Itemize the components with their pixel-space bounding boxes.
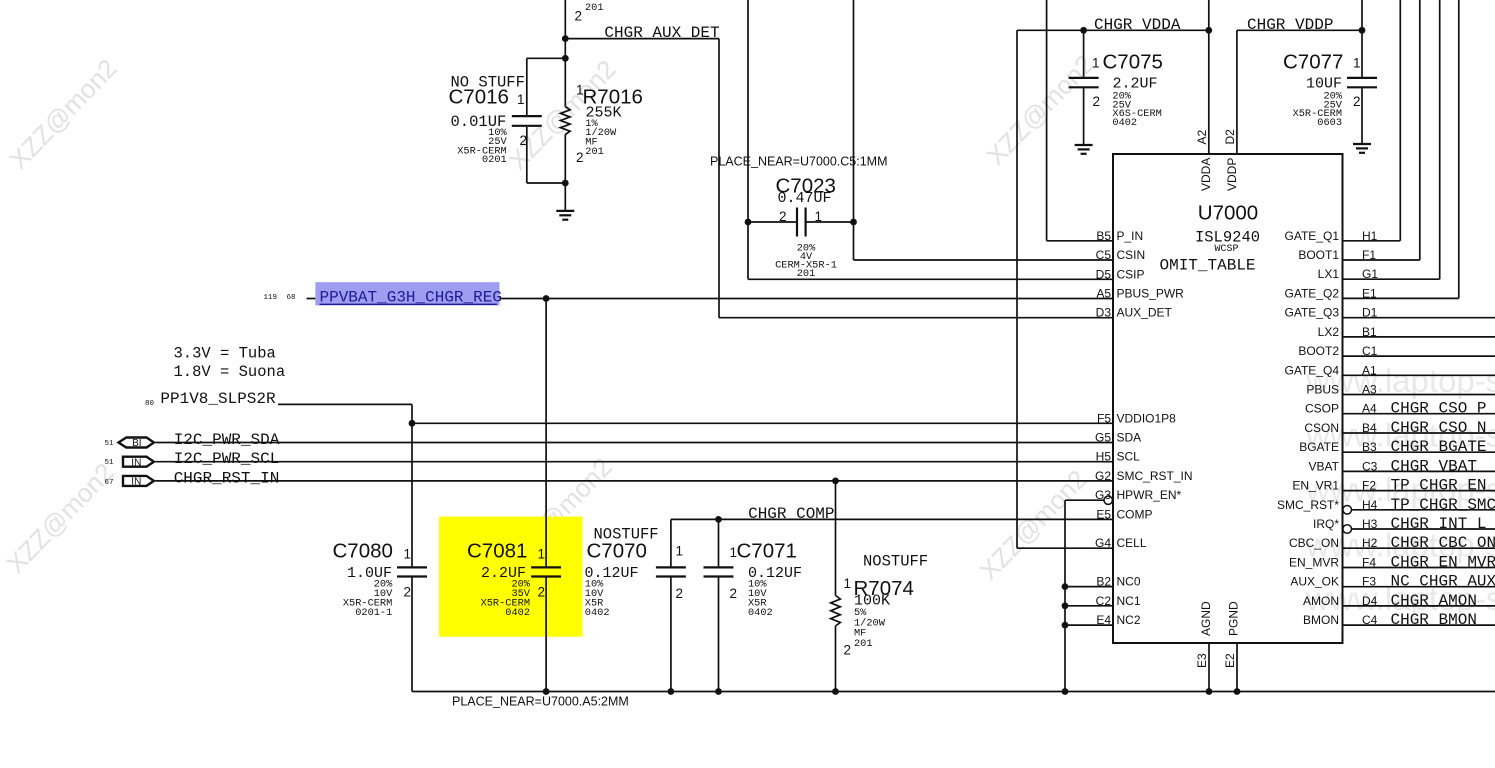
svg-text:2: 2 bbox=[676, 586, 684, 601]
watermark xzz@mon2 bbox=[973, 464, 1092, 586]
svg-text:C7070: C7070 bbox=[587, 540, 647, 563]
svg-text:VDDA: VDDA bbox=[1199, 158, 1213, 191]
svg-text:GATE_Q3: GATE_Q3 bbox=[1285, 306, 1340, 320]
pin A4 CSOP bbox=[1305, 400, 1495, 418]
wire PP1V8_SLPS2R bbox=[278, 404, 412, 566]
wire CHGR_VDDA bbox=[1017, 30, 1209, 548]
svg-text:VDDP: VDDP bbox=[1225, 158, 1239, 191]
svg-text:HPWR_EN*: HPWR_EN* bbox=[1117, 488, 1182, 502]
pin H2 CBC_ON bbox=[1289, 534, 1495, 552]
svg-text:0402: 0402 bbox=[505, 607, 530, 619]
op-amp U7000 ISL9240 body bbox=[1113, 154, 1343, 643]
svg-text:CHGR_VBAT: CHGR_VBAT bbox=[1391, 457, 1477, 475]
svg-text:2: 2 bbox=[519, 133, 527, 148]
svg-text:201: 201 bbox=[585, 2, 604, 14]
pin F2 EN_VR1 bbox=[1292, 477, 1495, 495]
svg-text:GATE_Q1: GATE_Q1 bbox=[1285, 229, 1340, 243]
pin G3 HPWR_EN* labels bbox=[1095, 488, 1182, 502]
svg-text:G5: G5 bbox=[1095, 431, 1111, 445]
svg-text:NC1: NC1 bbox=[1117, 594, 1141, 608]
capacitor C7080 bbox=[397, 567, 427, 691]
svg-text:PP1V8_SLPS2R: PP1V8_SLPS2R bbox=[160, 390, 276, 408]
pin B3 BGATE bbox=[1299, 438, 1495, 456]
pin ref number 51 (SDA) bbox=[104, 440, 114, 448]
pin G5 SDA labels bbox=[1095, 431, 1141, 445]
pin A5 PBUS_PWR labels bbox=[1096, 287, 1184, 301]
wire pin B2 NC0 bbox=[1065, 586, 1113, 588]
pin bubble G3 HPWR_EN* bbox=[1104, 496, 1112, 504]
junction node CHGR_COMP/C7071 bbox=[715, 516, 722, 523]
svg-text:C2: C2 bbox=[1096, 594, 1112, 608]
svg-text:67: 67 bbox=[104, 479, 113, 487]
note PLACE_NEAR=U7000.C5:1MM bbox=[710, 155, 888, 169]
svg-text:1: 1 bbox=[537, 547, 545, 562]
resistor R7074 (NOSTUFF) bbox=[831, 481, 841, 692]
pin ref number 67 bbox=[104, 479, 113, 487]
wire PPVBAT to pin A5 bbox=[500, 298, 1114, 300]
svg-text:D5: D5 bbox=[1096, 267, 1112, 281]
junction node rail x=718.5 bbox=[715, 688, 722, 695]
watermark xzz@mon2 bbox=[3, 53, 122, 175]
watermark www.laptop bbox=[1305, 416, 1495, 453]
pin E3 AGND bbox=[1195, 601, 1213, 692]
wire ground rail bbox=[412, 691, 1495, 693]
svg-text:2: 2 bbox=[537, 585, 545, 600]
pin D4 AMON bbox=[1303, 592, 1495, 610]
pin A2 VDDA bbox=[1195, 129, 1213, 191]
svg-text:CHGR_BMON: CHGR_BMON bbox=[1391, 611, 1477, 629]
svg-text:EN_VR1: EN_VR1 bbox=[1292, 479, 1339, 493]
C7080 labels bbox=[333, 540, 412, 620]
svg-text:CHGR_COMP: CHGR_COMP bbox=[748, 505, 834, 523]
svg-text:0402: 0402 bbox=[748, 607, 773, 619]
junction node NC0 bbox=[1062, 583, 1069, 590]
highlight blue PPVBAT_G3H_CHGR_REG bbox=[315, 282, 499, 305]
svg-text:1: 1 bbox=[815, 209, 823, 224]
svg-text:IRQ*: IRQ* bbox=[1313, 517, 1339, 531]
svg-text:C7075: C7075 bbox=[1103, 51, 1163, 74]
svg-text:C7016: C7016 bbox=[449, 86, 509, 109]
junction node NC2 bbox=[1062, 622, 1069, 629]
port arrow IN (I2C_PWR_SCL) bbox=[123, 457, 154, 469]
svg-text:AGND: AGND bbox=[1199, 601, 1213, 636]
pin H1 GATE_Q1 bbox=[1285, 0, 1401, 243]
junction node CHGR_AUX_DET bbox=[562, 35, 569, 42]
svg-text:A5: A5 bbox=[1096, 287, 1111, 301]
svg-text:NC0: NC0 bbox=[1117, 575, 1141, 589]
pin D2 VDDP bbox=[1223, 129, 1239, 191]
wire I2C_PWR_SCL to pin H5 bbox=[156, 461, 1114, 463]
capacitor C7075 bbox=[1069, 30, 1099, 145]
pin B4 CSON bbox=[1304, 419, 1495, 437]
svg-text:E5: E5 bbox=[1096, 507, 1111, 521]
svg-text:B2: B2 bbox=[1096, 575, 1111, 589]
svg-text:CSOP: CSOP bbox=[1305, 402, 1339, 416]
svg-text:BOOT2: BOOT2 bbox=[1298, 344, 1339, 358]
svg-text:G2: G2 bbox=[1095, 469, 1111, 483]
svg-text:AMON: AMON bbox=[1303, 594, 1339, 608]
svg-text:TP_CHGR_SMC_RST: TP_CHGR_SMC_RST bbox=[1391, 496, 1495, 514]
svg-text:D2: D2 bbox=[1223, 129, 1237, 145]
svg-text:51: 51 bbox=[104, 440, 114, 448]
pin F3 AUX_OK bbox=[1290, 573, 1495, 591]
svg-text:CHGR_CBC_ON: CHGR_CBC_ON bbox=[1391, 534, 1495, 552]
svg-text:1: 1 bbox=[676, 544, 684, 559]
svg-text:CHGR_BGATE: CHGR_BGATE bbox=[1391, 438, 1487, 456]
pin F1 BOOT1 bbox=[1298, 0, 1419, 262]
svg-text:1: 1 bbox=[403, 547, 411, 562]
pin ref number 51 (SCL) bbox=[104, 459, 114, 467]
svg-text:IN: IN bbox=[131, 477, 141, 488]
svg-text:119: 119 bbox=[263, 294, 277, 302]
svg-text:GATE_Q2: GATE_Q2 bbox=[1285, 286, 1340, 300]
net label CHGR_RST_IN bbox=[174, 469, 280, 487]
svg-text:LX2: LX2 bbox=[1318, 325, 1340, 339]
R7074 labels bbox=[843, 553, 928, 658]
svg-text:CHGR_EN_MVR: CHGR_EN_MVR bbox=[1391, 554, 1495, 572]
capacitor C7023 bbox=[748, 208, 854, 237]
svg-text:2: 2 bbox=[403, 585, 411, 600]
pin F4 EN_MVR bbox=[1289, 554, 1495, 572]
pin E1 GATE_Q2 bbox=[1285, 0, 1459, 300]
watermark www.laptop bbox=[1305, 471, 1495, 508]
pin G2 SMC_RST_IN labels bbox=[1095, 469, 1193, 483]
svg-text:SMC_RST*: SMC_RST* bbox=[1277, 498, 1339, 512]
net label CHGR_COMP bbox=[748, 505, 834, 523]
svg-text:E3: E3 bbox=[1195, 653, 1209, 668]
svg-text:VDDIO1P8: VDDIO1P8 bbox=[1117, 411, 1177, 425]
svg-text:P_IN: P_IN bbox=[1117, 229, 1144, 243]
svg-text:CHGR_AMON: CHGR_AMON bbox=[1391, 592, 1477, 610]
svg-text:0.47UF: 0.47UF bbox=[778, 190, 832, 207]
svg-text:C5: C5 bbox=[1096, 248, 1112, 262]
net label I2C_PWR_SDA bbox=[174, 431, 280, 449]
U7000 labels bbox=[1160, 202, 1261, 275]
svg-text:I2C_PWR_SDA: I2C_PWR_SDA bbox=[174, 431, 280, 449]
junction node rail x=670.9 bbox=[668, 688, 675, 695]
capacitor C7081 bbox=[531, 299, 561, 692]
wire CHGR_VDDP riser bbox=[1361, 0, 1363, 30]
pin H3 IRQ* bbox=[1313, 515, 1495, 533]
svg-text:OMIT_TABLE: OMIT_TABLE bbox=[1160, 257, 1256, 275]
svg-text:VBAT: VBAT bbox=[1309, 459, 1340, 473]
wire CHGR_COMP to pin E5 bbox=[671, 518, 1113, 520]
wire CSIN sense from top bbox=[854, 0, 1114, 260]
C7077 labels bbox=[1283, 51, 1361, 130]
pin C5 CSIN labels bbox=[1096, 248, 1146, 262]
net label PP1V8_SLPS2R bbox=[160, 390, 276, 408]
svg-text:AUX_DET: AUX_DET bbox=[1117, 306, 1173, 320]
note PLACE_NEAR=U7000.A5:2MM bbox=[452, 695, 629, 709]
ground symbol below C7075 bbox=[1075, 145, 1093, 154]
svg-text:201: 201 bbox=[854, 638, 873, 650]
net label I2C_PWR_SCL bbox=[174, 450, 280, 468]
pin B2 NC0 labels bbox=[1096, 575, 1141, 589]
svg-text:G4: G4 bbox=[1095, 536, 1111, 550]
wire CSIP sense from top bbox=[748, 0, 1113, 279]
svg-text:CHGR_RST_IN: CHGR_RST_IN bbox=[174, 469, 280, 487]
pin C4 BMON bbox=[1303, 611, 1495, 629]
svg-text:SCL: SCL bbox=[1117, 450, 1141, 464]
C7023 labels bbox=[775, 175, 837, 281]
svg-text:BGATE: BGATE bbox=[1299, 440, 1339, 454]
svg-text:CHGR_AUX_DET: CHGR_AUX_DET bbox=[604, 24, 719, 42]
svg-text:PGND: PGND bbox=[1227, 601, 1241, 636]
svg-text:2: 2 bbox=[843, 643, 851, 658]
svg-text:CSON: CSON bbox=[1304, 421, 1339, 435]
wire pin A2 riser bbox=[1208, 0, 1210, 154]
svg-text:3.3V = Tuba: 3.3V = Tuba bbox=[174, 345, 276, 363]
svg-text:CHGR_VDDP: CHGR_VDDP bbox=[1247, 16, 1333, 34]
svg-text:C7080: C7080 bbox=[333, 540, 393, 563]
watermark www.laptop bbox=[1305, 362, 1495, 399]
pin C1 BOOT2 bbox=[1298, 344, 1495, 358]
watermark xzz@mon2 bbox=[498, 452, 617, 574]
ground symbol below C7077 bbox=[1353, 144, 1371, 153]
svg-text:COMP: COMP bbox=[1117, 507, 1153, 521]
pin F5 VDDIO1P8 labels bbox=[1097, 411, 1176, 425]
svg-text:1.8V = Suona: 1.8V = Suona bbox=[174, 363, 286, 381]
pin E2 PGND bbox=[1223, 601, 1241, 692]
svg-text:XZZ@mon2: XZZ@mon2 bbox=[3, 53, 122, 175]
wire: stub from component above (pin 2) bbox=[565, 0, 603, 39]
pin ref numbers 119 68 bbox=[263, 294, 295, 302]
pin C3 VBAT bbox=[1309, 457, 1495, 475]
junction node PP1V8/F5/C7080 bbox=[409, 420, 416, 427]
svg-text:E2: E2 bbox=[1223, 653, 1237, 668]
svg-text:GATE_Q4: GATE_Q4 bbox=[1285, 363, 1340, 377]
watermark xzz@mon2 bbox=[502, 54, 621, 176]
ground symbol below R7016 bbox=[556, 211, 574, 220]
svg-text:PLACE_NEAR=U7000.A5:2MM: PLACE_NEAR=U7000.A5:2MM bbox=[452, 695, 629, 709]
svg-text:I2C_PWR_SCL: I2C_PWR_SCL bbox=[174, 450, 280, 468]
svg-text:CHGR_INT_L: CHGR_INT_L bbox=[1391, 515, 1487, 533]
svg-text:H5: H5 bbox=[1096, 450, 1112, 464]
svg-text:CHGR_CSO_N: CHGR_CSO_N bbox=[1391, 419, 1487, 437]
svg-text:SMC_RST_IN: SMC_RST_IN bbox=[1117, 469, 1193, 483]
svg-text:NOSTUFF: NOSTUFF bbox=[863, 553, 928, 571]
wire I2C_PWR_SDA to pin G5 bbox=[156, 442, 1114, 444]
wire HPWR_EN* tie bbox=[1065, 500, 1104, 691]
pin E4 NC2 labels bbox=[1096, 613, 1141, 627]
svg-text:BOOT1: BOOT1 bbox=[1298, 248, 1339, 262]
wire CHGR_RST_IN to pin G2 bbox=[156, 480, 1114, 482]
junction node CHGR_VDDP/C7077 bbox=[1359, 27, 1366, 34]
pin G1 LX1 bbox=[1318, 0, 1440, 281]
pin B1 LX2 bbox=[1318, 325, 1495, 339]
junction node rail x=1065 bbox=[1062, 688, 1069, 695]
svg-text:2: 2 bbox=[1353, 94, 1361, 109]
net label CHGR_AUX_DET bbox=[604, 24, 719, 42]
svg-text:TP_CHGR_EN_L: TP_CHGR_EN_L bbox=[1391, 477, 1495, 495]
pin H5 SCL labels bbox=[1096, 450, 1141, 464]
svg-text:2: 2 bbox=[1092, 94, 1100, 109]
capacitor C7077 bbox=[1347, 30, 1377, 144]
junction node C7023 pin2 bbox=[745, 219, 752, 226]
junction node CHGR_VDDA/C7075 bbox=[1080, 27, 1087, 34]
wire AUX_DET vertical to pin D3 bbox=[719, 39, 1113, 318]
pin C2 NC1 labels bbox=[1096, 594, 1141, 608]
pin D3 AUX_DET labels bbox=[1096, 306, 1173, 320]
C7081 labels bbox=[467, 540, 545, 620]
svg-text:XZZ@mon2: XZZ@mon2 bbox=[0, 457, 119, 579]
net label CHGR_VDDP bbox=[1247, 16, 1333, 34]
C7075 labels bbox=[1092, 51, 1163, 130]
svg-text:CHGR_VDDA: CHGR_VDDA bbox=[1094, 16, 1181, 34]
svg-text:201: 201 bbox=[797, 268, 816, 280]
watermark www.laptop bbox=[1305, 580, 1495, 617]
wire P_IN from top to pin B5 bbox=[1047, 0, 1113, 241]
pin ref number 80 bbox=[145, 400, 155, 408]
C7071 labels bbox=[730, 540, 803, 620]
C7016 labels bbox=[449, 74, 528, 167]
svg-text:A2: A2 bbox=[1195, 129, 1209, 144]
svg-text:2: 2 bbox=[730, 586, 738, 601]
svg-text:CSIP: CSIP bbox=[1117, 267, 1145, 281]
junction node CHGR_VDDA/A2 bbox=[1205, 27, 1212, 34]
watermark xzz@mon2 bbox=[980, 49, 1099, 171]
pin D5 CSIP labels bbox=[1096, 267, 1145, 281]
svg-text:CBC_ON: CBC_ON bbox=[1289, 536, 1339, 550]
svg-text:B5: B5 bbox=[1096, 229, 1111, 243]
wire CHGR_VDDP bbox=[1237, 30, 1362, 154]
svg-text:U7000: U7000 bbox=[1198, 202, 1258, 225]
pin E5 COMP labels bbox=[1096, 507, 1152, 521]
svg-text:2: 2 bbox=[575, 9, 583, 24]
svg-text:EN_MVR: EN_MVR bbox=[1289, 556, 1339, 570]
svg-text:IN: IN bbox=[131, 457, 141, 468]
svg-text:0201-1: 0201-1 bbox=[355, 607, 392, 619]
junction node C7023 pin1 bbox=[850, 219, 857, 226]
resistor R7016 bbox=[561, 39, 571, 211]
svg-text:PLACE_NEAR=U7000.C5:1MM: PLACE_NEAR=U7000.C5:1MM bbox=[710, 155, 888, 169]
wire CHGR_AUX_DET horizontal bbox=[565, 38, 719, 40]
pin A3 PBUS bbox=[1306, 383, 1495, 397]
junction node NC1 bbox=[1062, 602, 1069, 609]
junction node rail x=1237 bbox=[1234, 688, 1241, 695]
svg-text:2: 2 bbox=[576, 150, 584, 165]
svg-text:PBUS_PWR: PBUS_PWR bbox=[1117, 287, 1185, 301]
pin H4 SMC_RST* bbox=[1277, 496, 1495, 514]
svg-text:1: 1 bbox=[843, 576, 851, 591]
svg-text:WCSP: WCSP bbox=[1214, 244, 1238, 255]
svg-text:D3: D3 bbox=[1096, 306, 1112, 320]
watermark www.laptop bbox=[1305, 527, 1495, 564]
pin B5 P_IN labels bbox=[1096, 229, 1143, 243]
junction node C7016/R7016 top bbox=[562, 55, 569, 62]
svg-text:NC_CHGR_AUX_OK: NC_CHGR_AUX_OK bbox=[1391, 573, 1495, 591]
capacitor C7071 bbox=[704, 519, 734, 691]
capacitor C7070 (NOSTUFF) bbox=[656, 519, 686, 691]
svg-text:BMON: BMON bbox=[1303, 613, 1339, 627]
capacitor C7016 (NO STUFF) bbox=[512, 58, 566, 183]
highlight yellow over C7081 bbox=[439, 517, 583, 637]
svg-text:XZZ@mon2: XZZ@mon2 bbox=[973, 464, 1092, 586]
pin D1 GATE_Q3 bbox=[1285, 306, 1495, 320]
svg-text:C7071: C7071 bbox=[737, 540, 797, 563]
svg-text:PBUS: PBUS bbox=[1306, 383, 1339, 397]
watermark xzz@mon2 bbox=[0, 457, 119, 579]
junction node PPVBAT/C7081 bbox=[543, 295, 550, 302]
svg-text:51: 51 bbox=[104, 459, 114, 467]
svg-text:80: 80 bbox=[145, 400, 155, 408]
svg-text:0603: 0603 bbox=[1317, 117, 1342, 129]
wire pin E4 NC2 bbox=[1065, 624, 1113, 626]
junction node rail x=546.1 bbox=[543, 688, 550, 695]
svg-text:SDA: SDA bbox=[1117, 431, 1142, 445]
svg-text:CELL: CELL bbox=[1117, 536, 1147, 550]
svg-text:CHGR_CSO_P: CHGR_CSO_P bbox=[1391, 400, 1487, 418]
junction node C7016/R7016 bottom bbox=[562, 180, 569, 187]
svg-text:2: 2 bbox=[779, 209, 787, 224]
svg-text:68: 68 bbox=[286, 294, 295, 302]
svg-text:F5: F5 bbox=[1097, 411, 1111, 425]
svg-text:CSIN: CSIN bbox=[1117, 248, 1146, 262]
wire pin F5 VDDIO1P8 bbox=[412, 422, 1113, 424]
C7070 labels bbox=[585, 526, 684, 620]
svg-text:1: 1 bbox=[517, 92, 525, 107]
note voltage legend bbox=[174, 345, 286, 382]
port arrow BI (I2C_PWR_SDA) bbox=[119, 438, 154, 450]
junction node rail x=835.5 bbox=[832, 688, 839, 695]
svg-text:LX1: LX1 bbox=[1318, 267, 1340, 281]
svg-text:201: 201 bbox=[585, 146, 604, 158]
svg-text:1: 1 bbox=[1353, 55, 1361, 70]
svg-text:BI: BI bbox=[132, 438, 141, 449]
svg-text:AUX_OK: AUX_OK bbox=[1290, 575, 1339, 589]
junction node rail x=1209 bbox=[1206, 688, 1213, 695]
svg-text:1: 1 bbox=[1092, 55, 1100, 70]
net label CHGR_VDDA bbox=[1094, 16, 1181, 34]
svg-text:XZZ@mon2: XZZ@mon2 bbox=[980, 49, 1099, 171]
wire PPVBAT leader bbox=[307, 298, 316, 300]
svg-text:G3: G3 bbox=[1095, 488, 1111, 502]
net label PPVBAT_G3H_CHGR_REG bbox=[320, 289, 502, 307]
port arrow IN (CHGR_RST_IN) bbox=[123, 476, 154, 488]
svg-text:C7081: C7081 bbox=[467, 540, 527, 563]
R7016 labels bbox=[576, 83, 643, 166]
svg-text:C7077: C7077 bbox=[1283, 51, 1343, 74]
pin G4 CELL labels bbox=[1095, 536, 1147, 550]
pin A1 GATE_Q4 bbox=[1285, 363, 1495, 377]
svg-text:0402: 0402 bbox=[1112, 117, 1137, 129]
svg-text:0402: 0402 bbox=[585, 607, 610, 619]
wire pin C2 NC1 bbox=[1065, 605, 1113, 607]
svg-text:NC2: NC2 bbox=[1117, 613, 1141, 627]
junction node R7074/CHGR_RST_IN bbox=[832, 478, 839, 485]
svg-text:0201: 0201 bbox=[482, 154, 507, 166]
svg-text:E4: E4 bbox=[1096, 613, 1111, 627]
